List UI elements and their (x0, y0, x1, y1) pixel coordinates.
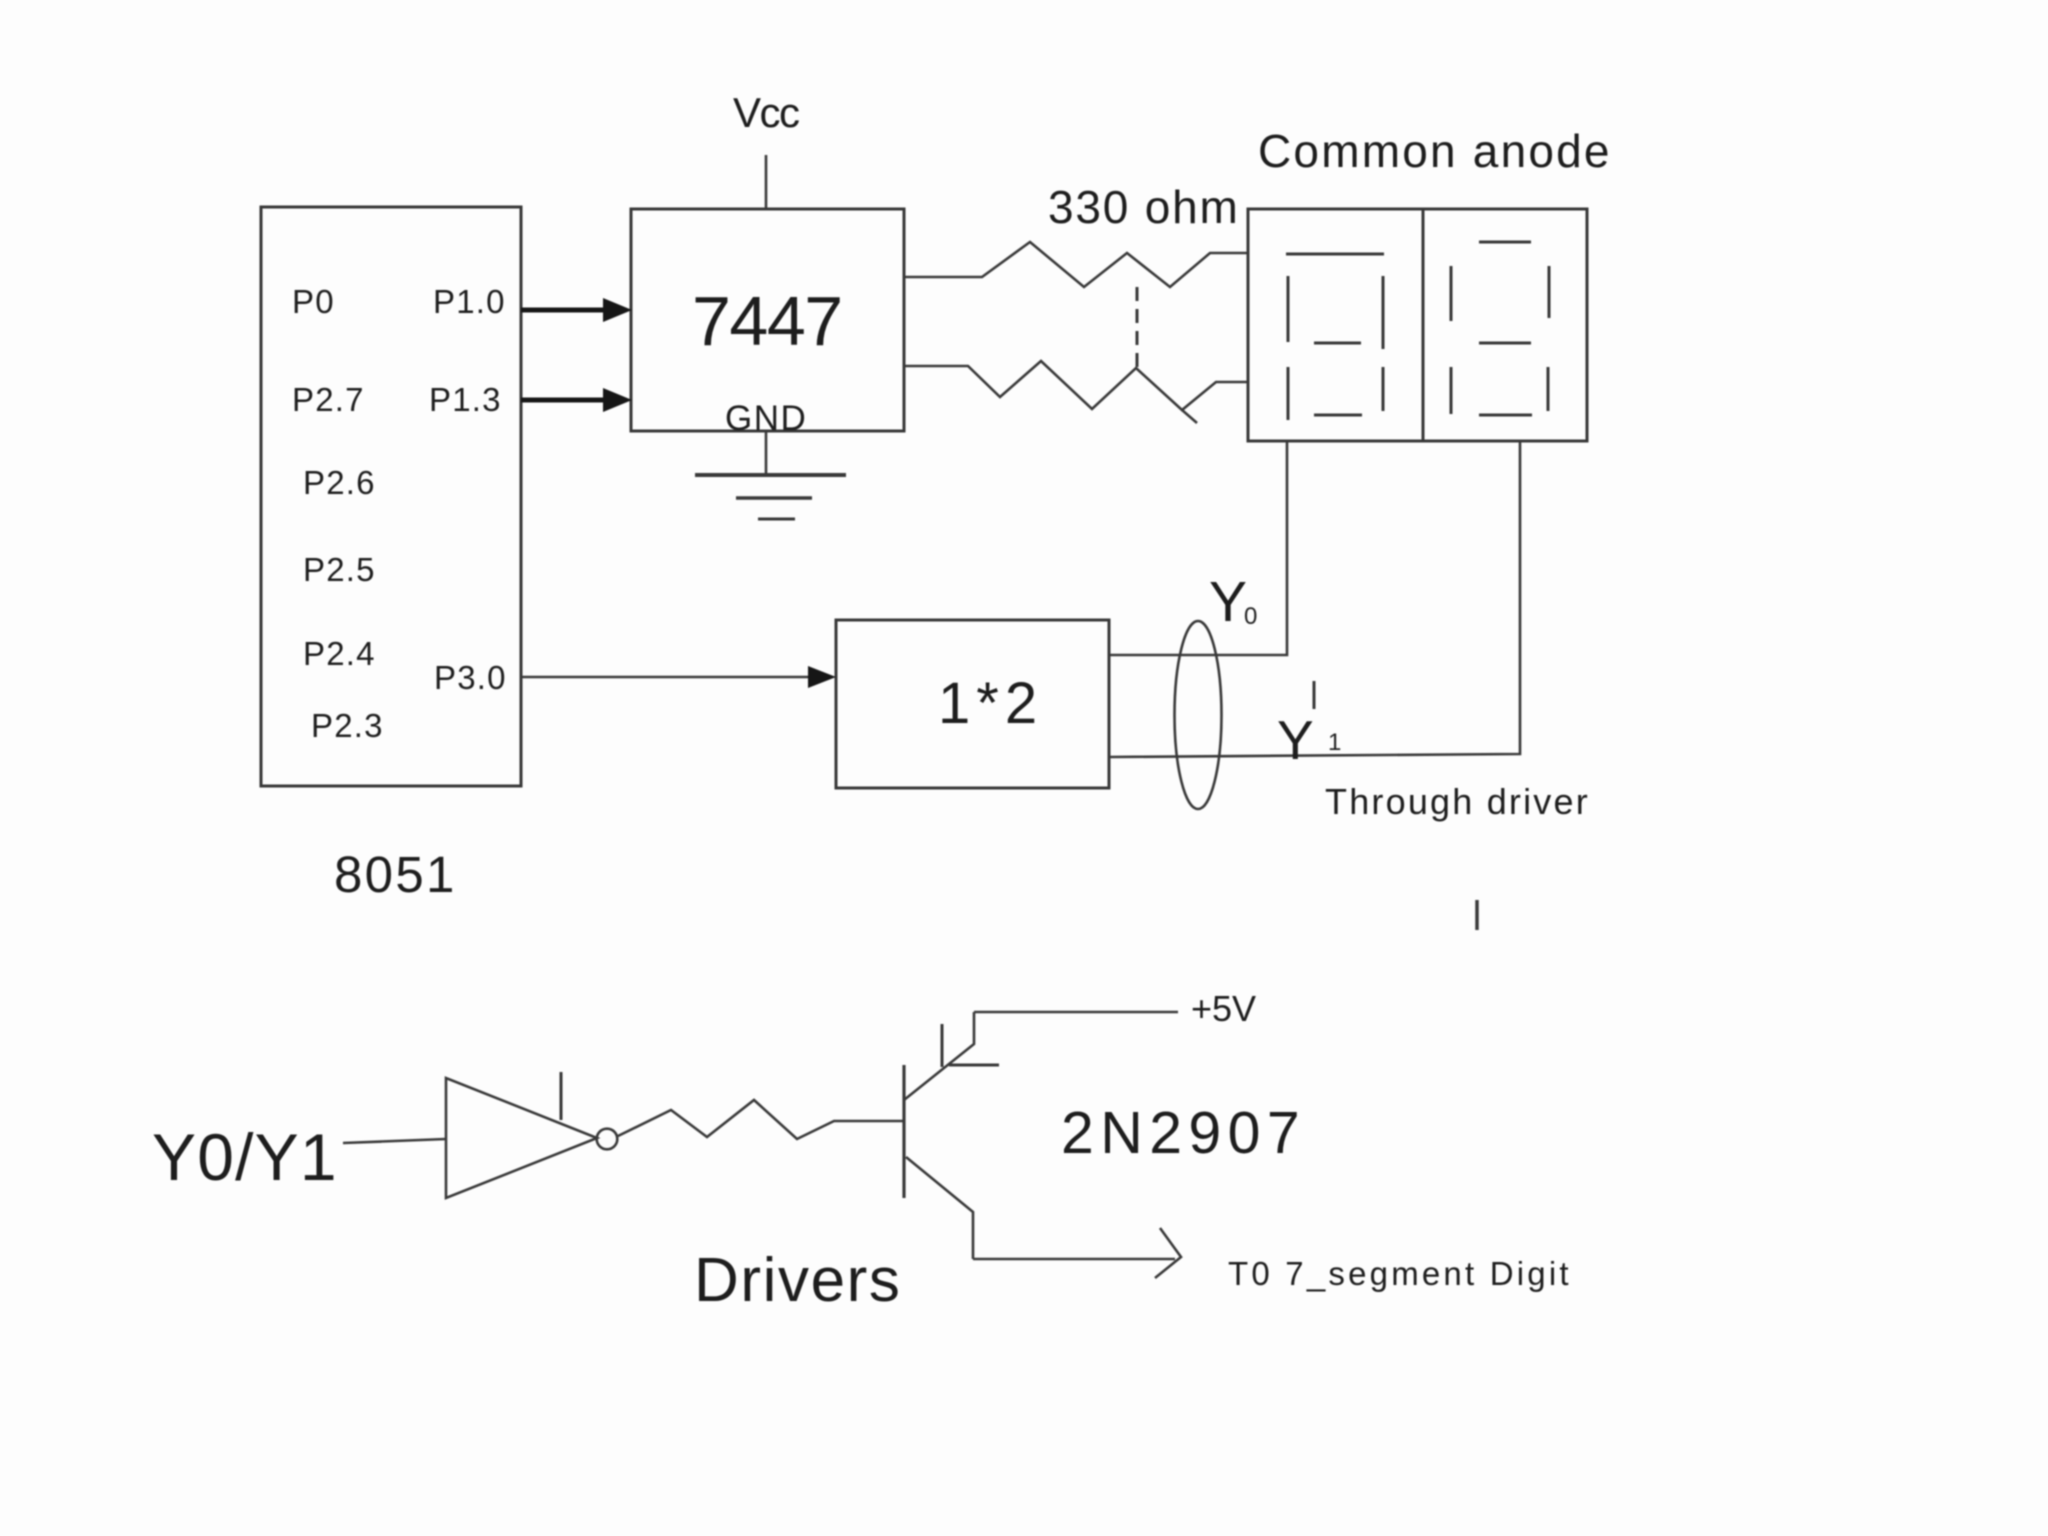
display digit 1 segment a (1286, 253, 1384, 256)
display digit 1 segment e (1287, 367, 1290, 420)
wire Y0 from 1*2 to display digit 1 (1110, 441, 1287, 655)
arrowhead P3.0 to 1*2 (808, 666, 836, 688)
svg-text:0: 0 (1244, 603, 1257, 630)
display digit 2 segment a (1479, 241, 1531, 244)
inverter bubble (597, 1129, 618, 1150)
svg-text:P2.7: P2.7 (292, 381, 365, 418)
7-segment display DS1 DS2 outer box (1248, 209, 1587, 441)
wire emitter to +5V (974, 1011, 1178, 1014)
display digit 1 segment d (1314, 414, 1362, 417)
arrowhead to 7-segment digit (1155, 1228, 1181, 1278)
svg-text:Vcc: Vcc (733, 89, 799, 136)
svg-text:1: 1 (1328, 729, 1341, 756)
wire Y1 from 1*2 to display digit 2 (1110, 441, 1520, 757)
display digit 2 segment f (1450, 266, 1453, 321)
svg-text:1*2: 1*2 (938, 671, 1043, 736)
svg-text:330 ohm: 330 ohm (1048, 181, 1240, 233)
svg-text:+5V: +5V (1191, 988, 1256, 1029)
tick near emitter vertical (941, 1024, 944, 1067)
dashed bus between resistors (1136, 287, 1139, 369)
svg-text:T0 7_segment Digit: T0 7_segment Digit (1228, 1255, 1572, 1292)
wire GND stem (765, 431, 768, 474)
display digit 1 segment c (1382, 367, 1385, 411)
svg-text:Drivers: Drivers (694, 1246, 902, 1315)
arrow P1.3 to 7447 (521, 398, 606, 403)
inverter U4 triangle (446, 1078, 597, 1198)
arrow P1.0 to 7447 (521, 308, 606, 313)
display digit 2 segment c (1547, 367, 1550, 411)
svg-text:Y0/Y1: Y0/Y1 (152, 1120, 338, 1194)
display digit 2 segment d (1479, 414, 1532, 417)
display digit 2 segment e (1450, 367, 1453, 414)
svg-text:8051: 8051 (334, 846, 457, 903)
svg-text:2N2907: 2N2907 (1061, 1100, 1306, 1166)
tick above Y1 (1313, 681, 1316, 709)
svg-text:GND: GND (725, 399, 807, 438)
bus ellipse (1175, 621, 1222, 809)
display digit 2 segment g (1479, 342, 1531, 345)
svg-text:P2.6: P2.6 (303, 464, 376, 501)
wire tail on R2 (1182, 410, 1197, 423)
1*2 decoder U3 box (836, 620, 1109, 788)
svg-text:Common anode: Common anode (1258, 125, 1612, 177)
tick near emitter horizontal (949, 1064, 999, 1067)
7447 decoder U2 box (631, 209, 904, 431)
wire P3.0 to 1*2 (521, 676, 812, 679)
svg-text:7447: 7447 (692, 282, 842, 360)
display divider (1422, 209, 1425, 441)
display digit 1 segment b (1382, 276, 1385, 349)
lone tick below Through driver (1475, 900, 1479, 930)
ground symbol (695, 473, 846, 477)
svg-text:P2.3: P2.3 (311, 707, 384, 744)
resistor R3 base resistor (618, 1100, 904, 1139)
resistor R2 330 ohm (bottom) (903, 361, 1248, 410)
svg-text:P1.3: P1.3 (429, 381, 502, 418)
resistor R1 330 ohm (top) (903, 242, 1248, 287)
svg-text:Y: Y (1277, 709, 1314, 771)
8051 microcontroller U1 box (261, 207, 521, 786)
svg-text:P2.4: P2.4 (303, 635, 376, 672)
wire collector to 7-segment digit (973, 1258, 1175, 1261)
svg-text:Through driver: Through driver (1325, 781, 1590, 822)
tick above inverter (560, 1072, 563, 1120)
display digit 1 segment g (1314, 342, 1361, 345)
svg-text:P3.0: P3.0 (434, 659, 507, 696)
wire Vcc to 7447 (765, 155, 768, 209)
svg-text:P0: P0 (292, 283, 335, 320)
svg-text:Y: Y (1209, 570, 1247, 634)
wire Y0/Y1 input to inverter (343, 1139, 446, 1143)
svg-text:P2.5: P2.5 (303, 551, 376, 588)
transistor Q1 collector (906, 1157, 973, 1259)
svg-text:P1.0: P1.0 (433, 283, 506, 320)
display digit 1 segment f (1287, 276, 1290, 342)
display digit 2 segment b (1548, 266, 1551, 318)
transistor Q1 emitter (904, 1012, 974, 1100)
transistor Q1 base bar (902, 1065, 905, 1198)
